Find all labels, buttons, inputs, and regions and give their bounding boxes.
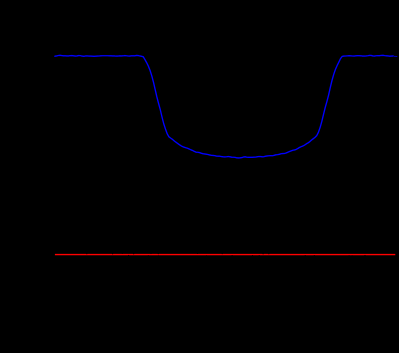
black residual data points grazing red line: [86, 253, 365, 257]
red residual zero line: [55, 254, 395, 256]
blue transit light curve: [55, 55, 393, 158]
blue curve thin tail at right edge: [394, 55, 397, 57]
